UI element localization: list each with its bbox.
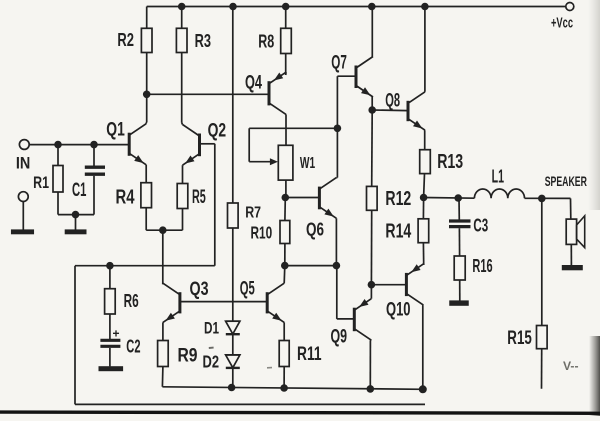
svg-text:R10: R10 — [251, 223, 273, 243]
svg-text:V--: V-- — [563, 361, 579, 373]
svg-text:+Vcc: +Vcc — [551, 15, 573, 31]
svg-text:R3: R3 — [195, 31, 211, 51]
svg-text:R16: R16 — [472, 255, 492, 276]
svg-text:L1: L1 — [492, 167, 504, 187]
svg-text:SPEAKER: SPEAKER — [545, 173, 587, 189]
svg-text:+: + — [113, 327, 120, 341]
svg-text:Q10: Q10 — [386, 300, 411, 321]
svg-text:Q8: Q8 — [385, 91, 400, 112]
svg-text:R6: R6 — [124, 290, 139, 311]
svg-text:R7: R7 — [245, 205, 261, 222]
svg-text:Q3: Q3 — [190, 278, 209, 300]
svg-text:D1: D1 — [204, 319, 219, 338]
svg-text:C3: C3 — [473, 216, 488, 236]
svg-text:R8: R8 — [258, 31, 274, 52]
svg-text:R2: R2 — [117, 30, 134, 50]
svg-text:Q1: Q1 — [106, 120, 125, 141]
svg-text:R12: R12 — [385, 188, 411, 210]
svg-text:Q9: Q9 — [331, 327, 348, 348]
svg-text:W1: W1 — [300, 155, 315, 172]
svg-text:R14: R14 — [385, 221, 412, 243]
svg-text:D2: D2 — [203, 352, 220, 372]
svg-text:R15: R15 — [507, 327, 532, 349]
svg-text:Q5: Q5 — [240, 278, 255, 300]
svg-text:Q4: Q4 — [245, 73, 262, 94]
svg-text:Q2: Q2 — [208, 121, 227, 142]
svg-text:Q6: Q6 — [306, 219, 324, 240]
svg-text:R13: R13 — [437, 151, 463, 173]
svg-text:R5: R5 — [192, 187, 206, 208]
svg-text:R1: R1 — [33, 173, 49, 192]
svg-text:C1: C1 — [72, 180, 87, 201]
svg-text:C2: C2 — [126, 337, 140, 357]
svg-text:R9: R9 — [178, 345, 198, 367]
svg-text:Q7: Q7 — [331, 53, 347, 74]
svg-text:R4: R4 — [116, 187, 136, 209]
svg-text:IN: IN — [16, 155, 30, 173]
svg-text:R11: R11 — [297, 343, 322, 365]
